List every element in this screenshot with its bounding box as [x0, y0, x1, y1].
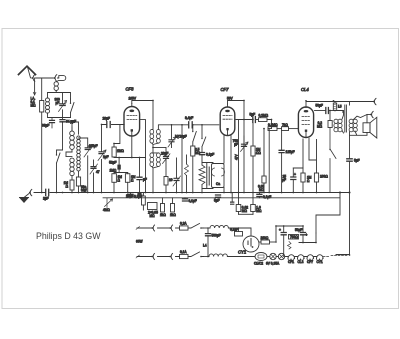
svg-text:MΩ: MΩ	[256, 209, 262, 213]
svg-text:Mƒ20μF: Mƒ20μF	[175, 135, 187, 139]
heater CF1	[285, 255, 295, 259]
wire R-ant to bus	[41, 78, 43, 193]
resistor Rosc2	[76, 177, 80, 186]
grid capacitor 20uF	[107, 122, 110, 128]
jack J1	[33, 75, 35, 82]
svg-text:μF: μF	[143, 178, 147, 182]
mains line 2	[137, 256, 180, 258]
output transformer secondary	[349, 119, 357, 132]
svg-text:0,2MΩ: 0,2MΩ	[268, 123, 278, 127]
svg-text:μF: μF	[56, 101, 60, 105]
svg-text:0,1μF: 0,1μF	[263, 195, 271, 199]
resistor 1MOhm grid	[112, 147, 116, 157]
trimmer Ct1	[93, 160, 95, 193]
svg-text:Ca: Ca	[216, 182, 220, 186]
capacitor 5uF bus	[216, 195, 221, 197]
jack m4	[171, 254, 172, 260]
capacitor 5uF	[253, 117, 256, 123]
resistor 1MOhm coupling	[252, 123, 254, 147]
resistor Rosc1	[70, 180, 74, 190]
resistor Rk1	[112, 174, 117, 183]
resistor 0.2MOhm b	[268, 127, 277, 131]
svg-text:0,2A: 0,2A	[180, 222, 187, 226]
speaker	[363, 123, 370, 133]
zigzag resistor Rz1	[185, 164, 189, 176]
IF transformer T1 winding 1 right	[157, 129, 161, 143]
trimmer 750uF	[243, 136, 245, 144]
switch S-osc	[57, 153, 61, 163]
capacitor 10uF between buses	[137, 193, 141, 196]
anode wire CF3	[132, 101, 153, 104]
wire osc top	[63, 122, 79, 134]
svg-text:MΩ: MΩ	[317, 125, 323, 129]
capacitor 0.1uF bus right	[257, 194, 262, 196]
fuse 0.1A	[180, 254, 189, 258]
svg-text:Ω: Ω	[307, 179, 310, 183]
resistor Rb2	[161, 204, 165, 213]
svg-text:+: +	[279, 228, 281, 232]
tube CF3	[124, 107, 140, 137]
svg-text:5μF: 5μF	[214, 199, 220, 203]
svg-text:50μF: 50μF	[295, 228, 302, 232]
wire transformer down	[349, 132, 351, 158]
svg-text:0,1μF: 0,1μF	[189, 199, 197, 203]
oscillator coil L2b	[70, 158, 74, 176]
svg-text:20μF: 20μF	[103, 117, 110, 121]
T1 tap wire	[153, 147, 166, 149]
svg-text:+: +	[294, 173, 296, 177]
resistor 260 Ohm	[259, 241, 261, 243]
heater wire to 5uF line	[323, 256, 347, 257]
svg-text:86μF: 86μF	[42, 124, 49, 128]
B+ line CF7	[243, 101, 245, 193]
antenna tuned block frame	[48, 93, 71, 118]
svg-text:CY1: CY1	[238, 250, 246, 255]
arrow down	[33, 92, 36, 95]
wire antenna down	[34, 78, 36, 95]
jack ground	[30, 189, 32, 195]
svg-text:Ω: Ω	[66, 185, 69, 189]
capacitor 125uF	[281, 131, 283, 150]
resistor Rk2	[125, 174, 129, 183]
wire to heater row	[336, 161, 350, 254]
wire antenna to coil	[36, 77, 54, 79]
anode wire CL4	[306, 102, 374, 108]
IF transformer T1 winding 2 left	[150, 153, 154, 167]
svg-text:760Ω: 760Ω	[290, 235, 298, 239]
svg-text:CF7: CF7	[307, 260, 313, 264]
lamp 6V	[270, 253, 276, 259]
switch S3	[330, 128, 336, 193]
tuning gang C1	[79, 138, 88, 193]
svg-text:MΩ: MΩ	[31, 104, 37, 108]
resistor Rk CL4	[301, 173, 305, 182]
fuse 0.2A	[180, 226, 189, 230]
switch S-ant	[71, 99, 75, 118]
tube CL4 pins	[303, 139, 309, 174]
svg-text:μF: μF	[282, 178, 286, 182]
filter resistor 760	[289, 235, 299, 240]
tube CF3 pins	[132, 120, 146, 193]
tuning gang C2	[101, 125, 103, 193]
svg-text:64 μμF: 64 μμF	[66, 119, 76, 123]
jack J2	[55, 75, 57, 82]
svg-text:4MΩ: 4MΩ	[103, 208, 110, 212]
svg-text:1MΩ: 1MΩ	[110, 169, 117, 173]
svg-text:105V: 105V	[129, 97, 137, 101]
svg-text:20μF: 20μF	[161, 152, 168, 156]
svg-text:7kΩ: 7kΩ	[282, 123, 288, 127]
svg-text:½W: ½W	[81, 189, 87, 193]
coupling wire CF7-CL4	[237, 119, 253, 121]
resistor 0.02M	[238, 193, 240, 215]
wire boxes join	[239, 213, 254, 215]
svg-text:50μF: 50μF	[316, 104, 323, 108]
filter capacitor 50uF b	[301, 233, 306, 235]
coupling coil loop	[56, 76, 66, 82]
oscillator secondary coil L3	[77, 136, 81, 171]
choke La	[204, 227, 211, 229]
trimmer Mf 20uF	[171, 125, 173, 139]
tube CL4	[298, 107, 313, 138]
svg-text:CF1: CF1	[288, 260, 294, 264]
svg-text:5μF: 5μF	[354, 159, 360, 163]
svg-text:5μF: 5μF	[250, 113, 256, 117]
svg-text:260Ω: 260Ω	[261, 236, 269, 240]
IF2 winding zigzag	[199, 165, 205, 185]
B+ return wire	[316, 193, 340, 234]
resistor 1.0M	[252, 193, 254, 215]
svg-text:+: +	[306, 233, 308, 237]
svg-text:1kΩ: 1kΩ	[170, 213, 176, 217]
jack out2	[372, 111, 374, 117]
svg-text:ΩΩ: ΩΩ	[256, 151, 261, 155]
choke Lb	[204, 256, 210, 258]
switch m1	[188, 224, 204, 229]
wire drop x182	[181, 125, 183, 193]
svg-text:500pF: 500pF	[212, 234, 221, 238]
svg-text:8,4μF: 8,4μF	[185, 116, 193, 120]
T1 stems	[152, 101, 159, 193]
filter capacitor 50uF a	[281, 233, 286, 235]
heater CF7	[304, 255, 313, 259]
resistor Rb3	[171, 204, 175, 213]
IF transformer T1 winding 2 right	[157, 153, 161, 167]
capacitor 64uuF	[60, 120, 65, 122]
antenna stem wire	[28, 67, 31, 78]
svg-text:CL4: CL4	[298, 260, 304, 264]
svg-text:50V: 50V	[227, 97, 234, 101]
svg-text:47: 47	[96, 170, 100, 174]
capacitor 86uF	[51, 118, 53, 129]
tube CF7 pins	[224, 120, 239, 193]
lamp 0.35A	[278, 253, 284, 259]
svg-text:47V: 47V	[235, 153, 239, 160]
mains line 1	[137, 227, 180, 229]
svg-text:1μF: 1μF	[103, 155, 109, 159]
resistor box 2x0.05	[148, 203, 158, 210]
output transformer primary	[334, 119, 342, 132]
capacitor 25uF	[292, 168, 294, 176]
grid wire to CF3	[102, 124, 125, 126]
svg-text:CF3: CF3	[126, 87, 135, 92]
IF2 capacitor	[207, 167, 209, 185]
oscillator coil L2a	[70, 131, 75, 149]
coil L1	[46, 98, 50, 113]
svg-text:1μF: 1μF	[43, 197, 49, 201]
svg-text:6V 0,35A: 6V 0,35A	[266, 262, 280, 266]
resistor 0.2MOhm a	[255, 119, 258, 121]
svg-text:0,2MΩ: 0,2MΩ	[259, 114, 269, 118]
svg-text:1MΩ: 1MΩ	[117, 149, 124, 153]
resistor 7k	[277, 128, 282, 130]
svg-text:Ω: Ω	[131, 178, 134, 182]
jack m2	[171, 225, 172, 231]
svg-text:L5: L5	[338, 105, 342, 109]
resistor 10	[164, 177, 168, 186]
capacitor 0.1uF CF7	[200, 153, 205, 155]
resistor 0.85M	[263, 129, 265, 176]
trimmer Ct3	[176, 158, 178, 178]
resistor 100 Ohm	[309, 140, 317, 174]
capacitor 52uF	[118, 158, 120, 173]
svg-text:0,1μF: 0,1μF	[206, 153, 214, 157]
jack m1	[153, 225, 154, 231]
svg-text:465μF: 465μF	[89, 144, 98, 148]
svg-text:1kΩ: 1kΩ	[160, 213, 166, 217]
wire block to cap	[62, 118, 64, 120]
junction dots bus	[41, 192, 43, 194]
capacitor small below bus	[231, 193, 233, 202]
svg-text:CY1: CY1	[317, 260, 323, 264]
svg-text:10: 10	[169, 178, 173, 182]
svg-text:L4: L4	[203, 244, 207, 248]
trimmer C-ant	[62, 93, 64, 118]
secondary wires to speaker	[350, 115, 368, 136]
jack out1	[374, 98, 376, 104]
rail to resistor tops	[114, 173, 128, 174]
Ca box	[212, 164, 225, 188]
capacitor 0.1uF b2	[183, 199, 188, 201]
capacitor 50uF out	[315, 110, 326, 112]
svg-text:CF7: CF7	[221, 87, 230, 92]
svg-text:μF: μF	[234, 143, 238, 147]
capacitor Ck	[139, 158, 141, 177]
choke L5	[334, 102, 336, 104]
wire osc left	[57, 150, 63, 155]
potentiometer 4M	[105, 198, 113, 208]
tube CF7	[220, 107, 235, 136]
svg-text:125μF: 125μF	[286, 150, 295, 154]
trimmer 20uF osc	[164, 156, 169, 158]
antenna	[19, 66, 36, 74]
coupling coil winding	[54, 82, 58, 91]
switch m2	[188, 252, 204, 257]
jack m3	[153, 254, 154, 260]
bus series capacitor	[46, 189, 49, 195]
ground	[20, 194, 30, 198]
capacitor 5uF out	[347, 159, 352, 161]
capacitor 0.1uF b1	[128, 194, 133, 196]
wire coils to bus	[71, 176, 73, 193]
svg-text:Philips D 43 GW: Philips D 43 GW	[36, 231, 101, 241]
heater CF3	[295, 255, 304, 259]
anode wire CF7	[228, 101, 245, 105]
IF transformer T1 winding 1 left	[150, 129, 154, 143]
svg-text:0,1μF: 0,1μF	[134, 195, 142, 199]
svg-text:0,1μF: 0,1μF	[230, 228, 238, 232]
svg-text:60W: 60W	[136, 240, 143, 244]
coil tap wires	[66, 152, 72, 157]
svg-text:C1/C2: C1/C2	[254, 262, 263, 266]
capacitor 8.4uF	[189, 122, 193, 128]
wire cap down	[62, 122, 64, 150]
svg-text:MΩ: MΩ	[150, 214, 156, 218]
second bus	[103, 197, 340, 199]
svg-text:100Ω: 100Ω	[320, 175, 328, 179]
resistor 0.2M out	[329, 111, 331, 121]
resistor Rb1	[142, 196, 146, 205]
resistor 2.5M	[191, 146, 195, 156]
B+ node wire	[276, 226, 303, 242]
rectifier CY1	[243, 236, 259, 252]
svg-text:Ω: Ω	[118, 178, 121, 182]
svg-text:CL4: CL4	[301, 87, 309, 92]
junction dots grid wires	[101, 124, 103, 126]
scale lamp C1/C2	[255, 253, 267, 261]
switch S-if2	[202, 125, 206, 152]
svg-text:MΩ: MΩ	[242, 209, 248, 213]
heater CY1	[314, 255, 323, 259]
grid wire to CF7	[158, 125, 218, 130]
chassis bus	[34, 192, 350, 194]
svg-text:0,1A: 0,1A	[180, 250, 187, 254]
capacitor 500pF	[207, 228, 209, 233]
output transformer core	[345, 105, 347, 132]
resistor R-ant	[40, 101, 44, 113]
capacitor 0.1 rect	[235, 232, 243, 237]
svg-text:52μF: 52μF	[109, 161, 116, 165]
